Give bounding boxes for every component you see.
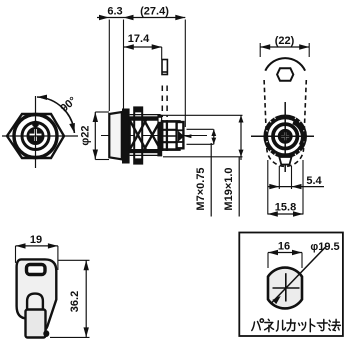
dark mark bottom right xyxy=(43,330,49,337)
end nut M7 xyxy=(177,122,184,148)
dim 36.2 xyxy=(58,259,89,261)
bottom tab xyxy=(279,157,291,165)
center line xyxy=(101,135,207,137)
center slit xyxy=(281,135,289,137)
to xyxy=(310,319,315,332)
outer ring xyxy=(14,115,57,158)
ne xyxy=(265,319,274,331)
extension line x185.3 xyxy=(184,20,186,128)
svg-text:φ22: φ22 xyxy=(80,125,92,145)
extension line x123.5 xyxy=(123,20,125,109)
svg-text:M19×1.0: M19×1.0 xyxy=(223,167,235,210)
sun (kanji) xyxy=(317,320,327,331)
thread tip chamfer dark xyxy=(178,131,184,142)
svg-text:17.4: 17.4 xyxy=(128,33,150,45)
dim 19 xyxy=(16,245,58,247)
arrows 6.3 xyxy=(99,15,109,20)
dim (22) xyxy=(260,46,309,48)
svg-text:6.3: 6.3 xyxy=(107,6,122,18)
rear cylinder xyxy=(162,121,179,149)
dim 15.8 xyxy=(268,213,303,215)
rear flange bar xyxy=(157,115,162,157)
cam bottom dashed arc xyxy=(267,148,304,166)
panel cut text (Japanese drawn as paths) xyxy=(252,319,341,332)
blade sleeve xyxy=(26,310,46,338)
svg-text:M7×0.75: M7×0.75 xyxy=(195,167,207,210)
cutout circle with flats xyxy=(268,268,302,309)
90 deg arc xyxy=(37,97,74,133)
hex hole xyxy=(277,68,293,81)
rear view centerlines xyxy=(284,102,286,172)
extension lines down xyxy=(267,160,269,215)
white slit in plug xyxy=(30,134,42,137)
X pattern right xyxy=(144,120,161,150)
M7 extension lines xyxy=(187,128,214,130)
inner ring xyxy=(22,123,49,150)
head (bezel) xyxy=(109,112,122,159)
M19 extension lines xyxy=(158,114,243,116)
dim 17.4 xyxy=(124,46,162,48)
ru xyxy=(276,320,285,331)
hex horizontal centerline xyxy=(2,135,78,137)
hou (kanji) xyxy=(329,319,341,330)
cam plate edge-on lines through cylinder xyxy=(161,120,163,151)
leader diagonal xyxy=(271,247,326,304)
extension line x161.7 (cam) xyxy=(161,47,163,60)
X pattern left xyxy=(130,120,146,150)
extension line x109 xyxy=(108,20,110,112)
cross xyxy=(273,287,300,289)
svg-text:36.2: 36.2 xyxy=(69,291,81,312)
svg-text:(27.4): (27.4) xyxy=(140,6,169,18)
dim 5.4 xyxy=(268,186,324,188)
cylinder knurled ring xyxy=(263,115,307,159)
blade arch xyxy=(27,294,43,311)
cam dashed hidden part xyxy=(161,86,163,118)
arrow 27.4 right xyxy=(175,15,185,20)
cam top arc solid xyxy=(265,58,305,71)
thread crest lines xyxy=(130,114,161,116)
ka xyxy=(287,319,296,331)
svg-text:5.4: 5.4 xyxy=(306,175,322,187)
key slot top nub xyxy=(32,121,39,128)
key head xyxy=(17,259,57,331)
svg-text:19: 19 xyxy=(30,234,42,246)
hex nut body xyxy=(7,114,64,158)
nut caps xyxy=(134,107,143,112)
svg-text:(22): (22) xyxy=(275,35,295,47)
dim 6.3 / (27.4) line xyxy=(97,17,185,19)
hex nut channel (behind) xyxy=(134,107,142,163)
svg-text:15.8: 15.8 xyxy=(275,202,296,214)
hex vertical centerline xyxy=(35,96,37,168)
center plug xyxy=(27,127,45,145)
threaded body box xyxy=(130,118,161,153)
cam plate up position (solid) xyxy=(162,60,167,75)
small tsu xyxy=(299,322,306,330)
key hole xyxy=(27,265,46,275)
pa xyxy=(252,322,260,331)
svg-text:16: 16 xyxy=(278,241,290,253)
panel flange black bar xyxy=(122,109,130,164)
center line arrow at tip xyxy=(184,134,191,138)
cam sides dashed tapering xyxy=(264,80,267,148)
